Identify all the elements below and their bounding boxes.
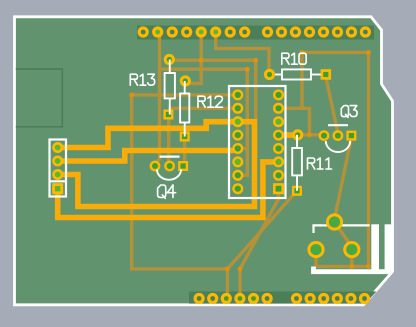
wire junction down to bottom pad (226, 269, 229, 296)
wire IC L2 to R13 net (169, 107, 238, 110)
wire top pad5 stub down to R12 top (185, 30, 201, 84)
connector J-left silkscreen (50, 140, 67, 197)
zone outline top-left (16, 69, 63, 127)
wire diagonal Q3sq to big pad A (335, 137, 352, 219)
label Q4 (158, 185, 176, 198)
wire top pad6 stub to R10 left (216, 30, 269, 75)
transistor Q4 outline (160, 156, 180, 158)
label R12 (198, 96, 222, 107)
resistor R10 body (275, 74, 282, 76)
wire Y1 connector pad1 to IC L3 (58, 122, 238, 148)
wire Y2 connector pad2 to IC L5 (58, 149, 238, 162)
wire Y5 IC R4 to R11 top (279, 132, 298, 138)
resistor R10 pads (264, 69, 275, 80)
wire R13 top into IC (line A) (169, 60, 255, 121)
label Q3 (341, 106, 357, 118)
resistor R13 body (169, 60, 171, 74)
connector bottom-right silkscreen (314, 225, 370, 233)
wire junction diagonal to R11 bottom (227, 191, 297, 269)
wire R12 bottom to Q4 right (183, 139, 185, 166)
label R13 (130, 74, 154, 85)
wire pad2 branch to IC L7 (line B) (160, 69, 248, 175)
wire Y4 connector pad4 to IC R6 (58, 162, 279, 218)
transistor Q3 pads (319, 130, 330, 141)
wire IC L5 stub (238, 147, 248, 150)
wire big pad C drop (350, 250, 353, 267)
label R10 (282, 53, 306, 64)
resistor R13 pads (164, 54, 175, 65)
op-amp / IC U1 outline (229, 86, 286, 198)
wire seg3 vertical (300, 52, 303, 108)
wire R11 top to Q3 left (298, 133, 324, 136)
connector J-top pads row (138, 26, 149, 37)
node junction dots (199, 58, 204, 63)
resistor R11 pads (292, 129, 303, 140)
copper zone band bottom (189, 292, 377, 304)
resistor R12 pads (180, 75, 191, 86)
resistor R11 body (296, 135, 298, 148)
wire diagonal R10sq to Q3 middle (326, 77, 338, 133)
wire diagonal A to C (335, 222, 352, 247)
label R11 (308, 158, 332, 169)
wire top pad2 stub down to Q4 left (155, 30, 159, 167)
wire big pad B drop (314, 250, 317, 267)
op-amp / IC U1 pads (232, 89, 243, 100)
wire R13 bottom to Q4 middle (167, 116, 171, 166)
wire R8sq diagonal to bottom pad (240, 190, 279, 296)
resistor R12 body (184, 81, 186, 94)
transistor Q4 pads (150, 161, 161, 172)
transistor Q3 outline (328, 124, 348, 126)
wire Y3 connector pad3 to IC L3 (58, 122, 255, 207)
wire IC L1 long loop to bottom junction (132, 95, 238, 269)
connector J-left pads (52, 142, 63, 153)
wire IC R2 to R11/Q3 junction (279, 108, 310, 135)
mounting big pads A B C (326, 213, 343, 230)
connector bottom pads row (194, 293, 205, 304)
wire right edge loop to big pads (302, 52, 369, 266)
copper zone band top (137, 26, 374, 40)
